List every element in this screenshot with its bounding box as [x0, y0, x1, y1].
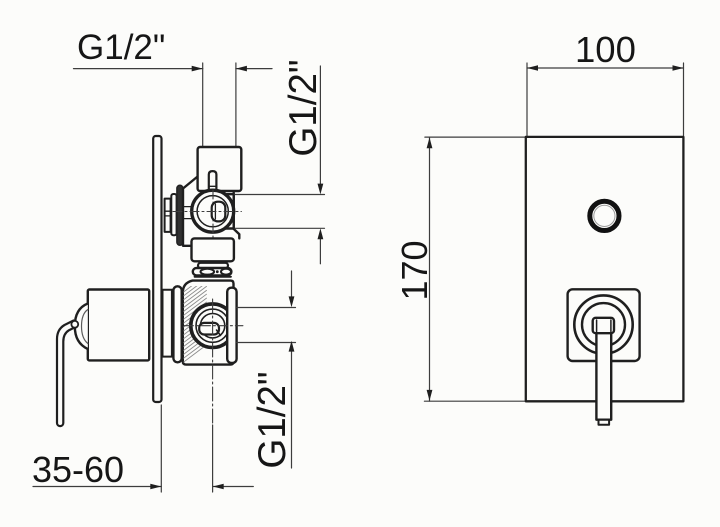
- lower center line horizontal: [184, 325, 243, 327]
- upper valve collar: [171, 194, 176, 235]
- arrow down tip lower-right: [289, 296, 295, 307]
- upper body right edge: [234, 193, 240, 239]
- upper chamber internal lines: [184, 206, 195, 208]
- wall plate (side view): [153, 136, 161, 402]
- lower valve chamber: [183, 281, 234, 365]
- lever tip: [599, 420, 610, 425]
- svg-text:G1/2": G1/2": [77, 28, 165, 67]
- dimension line top horizontal: [74, 68, 273, 70]
- svg-text:G1/2": G1/2": [282, 59, 325, 156]
- nut facet left: [201, 269, 215, 275]
- arrow down tip 170: [427, 390, 433, 401]
- pivot screw circle: [71, 321, 78, 328]
- upper valve dark flange: [177, 185, 183, 245]
- dimension line 35-60: [33, 486, 253, 488]
- lever bar front view: [596, 330, 611, 420]
- lower center line vertical / extension to 35-60 dim: [212, 299, 214, 425]
- lower cartridge stem pill: [199, 323, 219, 335]
- extension lines 100: [527, 63, 684, 136]
- extension lines 170: [424, 137, 525, 401]
- extension line 35-60 left: [160, 405, 162, 492]
- upper valve sleeve: [165, 199, 171, 232]
- hex nut band: [193, 268, 232, 275]
- handle circle outer: [574, 295, 632, 353]
- diverter button: [590, 201, 619, 230]
- svg-text:G1/2": G1/2": [251, 371, 294, 468]
- arrow up tip 170: [427, 138, 433, 149]
- dimension line 170 vertical: [429, 137, 431, 401]
- upper vertical center line: [212, 190, 214, 258]
- dimension line 100: [527, 67, 684, 69]
- arrow left tip 35-60: [213, 484, 224, 490]
- arrow down tip upper-right: [318, 184, 324, 195]
- arrow right tip at top dim: [192, 66, 203, 72]
- handle circle inner: [582, 303, 625, 346]
- lower valve circle inner: [200, 314, 224, 338]
- arrow right tip 100: [673, 65, 684, 71]
- extension line top right: [235, 63, 237, 147]
- upper valve body outline: [183, 177, 198, 246]
- nut facet right: [221, 269, 231, 275]
- spindle pin on top block: [209, 171, 217, 189]
- upper valve circle inner: [197, 196, 228, 227]
- extension line top left: [202, 63, 204, 147]
- arrow up tip upper-right: [318, 228, 324, 239]
- arrow left tip at top dim: [236, 66, 247, 72]
- svg-text:35-60: 35-60: [32, 449, 124, 490]
- arrow up tip lower-right: [289, 341, 295, 352]
- nut bottom edge: [195, 276, 232, 278]
- svg-text:100: 100: [575, 29, 636, 70]
- front plate rectangle: [526, 137, 684, 401]
- extension lines upper-right: [235, 195, 325, 229]
- handle dome cap: [75, 304, 88, 350]
- arrow right tip 35-60: [150, 484, 161, 490]
- mounting lug: [227, 288, 236, 363]
- lower flange bar: [173, 286, 181, 362]
- extension lines lower-right: [237, 308, 296, 343]
- handle escutcheon square: [568, 289, 640, 361]
- svg-text:170: 170: [394, 240, 435, 300]
- nut facet dot: [216, 270, 219, 273]
- upper cartridge stem pill: [212, 202, 226, 222]
- lever hub: [593, 318, 614, 333]
- lever handle: [57, 321, 76, 427]
- threaded ring upper: [198, 263, 228, 268]
- handle cylinder: [88, 290, 149, 361]
- upper center line: [173, 211, 241, 213]
- handle dome inner contour: [82, 310, 88, 344]
- lower valve circle outer: [191, 304, 235, 348]
- upper outlet boss: [224, 194, 234, 228]
- top port block: [198, 147, 242, 191]
- upper valve circle outer: [192, 190, 234, 232]
- dimension line upper-right vertical: [319, 66, 321, 264]
- middle connector block: [192, 238, 234, 261]
- lower valve circle mid: [196, 309, 229, 342]
- arrow left tip 100: [527, 65, 538, 71]
- dimension line lower-right vertical: [291, 271, 293, 468]
- lower sleeve: [163, 290, 172, 357]
- thread hatch: [184, 275, 207, 362]
